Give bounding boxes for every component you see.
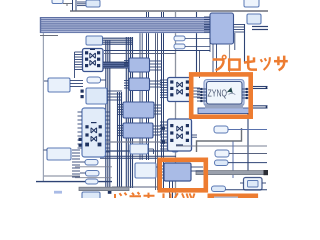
wires M3 out (154, 105, 162, 114)
wire right pair (252, 27, 268, 30)
block B6 (135, 163, 162, 178)
wire horizontal y157 (100, 156, 176, 158)
ZYNQ left pins (197, 88, 207, 102)
block TR1 (244, 0, 259, 7)
wire thin gray pair (75, 167, 112, 178)
pill P6 (212, 186, 268, 192)
axi interconnect U2 (82, 108, 106, 157)
wire pill stub (101, 79, 107, 81)
wire horizontal y186 (112, 186, 158, 188)
wire gray rail top (70, 10, 268, 12)
label processor (katakana) (213, 55, 288, 70)
wire vertical pair F (162, 12, 164, 190)
pill P2 (80, 171, 99, 177)
block bottom-left (47, 148, 71, 160)
ZYNQ processing system U5 (204, 80, 244, 109)
U3 right stubs (192, 88, 201, 97)
wire horizontal y176 (44, 175, 80, 177)
block small top-left (52, 0, 63, 4)
U4 left pin stubs (160, 122, 168, 149)
wire gray below M0 (229, 44, 231, 74)
bus ribbon (many parallel nets) (40, 17, 210, 33)
highlight box video (160, 160, 206, 191)
block proc sys reset (81, 88, 108, 104)
wire gray y146 (176, 145, 267, 147)
bus vertical bundle A (106, 40, 110, 191)
wire vertical right (244, 24, 246, 62)
M0 left pin stubs (204, 17, 210, 32)
wire vertical H (199, 50, 201, 78)
bus vertical bundle C (126, 37, 132, 188)
pill P5 (215, 160, 268, 166)
block bottom cut (82, 192, 100, 200)
pill clk wiz (87, 77, 101, 83)
svg-text:ZYNQ: ZYNQ (208, 89, 228, 100)
module M5 (video) (164, 163, 203, 181)
wire const join (209, 38, 211, 52)
wire vertical sd (247, 113, 249, 172)
bus wide gray 2 (196, 170, 268, 175)
wire horizontal y142 (100, 141, 176, 143)
M0 right wires (234, 25, 245, 33)
mark bottom small (54, 191, 62, 194)
bus behind ZYNQ (198, 108, 250, 114)
block reset left (48, 78, 70, 92)
wire B7 stubs (240, 182, 266, 184)
wires reset to U1 (44, 81, 83, 87)
wire horizontal y53 (104, 53, 176, 55)
wire y152 (229, 153, 267, 155)
wire pin stubs (77, 2, 86, 6)
bus from feeder (103, 38, 134, 44)
wire vertical pair D (147, 12, 149, 160)
wires M5 bottom (170, 181, 173, 198)
module M4 (118, 123, 153, 138)
axi smartconnect U3 (168, 78, 192, 102)
pill P3 (86, 179, 99, 184)
wire vertical G (196, 12, 198, 72)
wire vertical D2 (140, 33, 142, 160)
wire stub (63, 4, 73, 7)
U2 right pin stubs (106, 112, 111, 152)
module M5 (video) pins (159, 166, 166, 178)
junction square (108, 190, 112, 194)
module M2 (124, 78, 150, 91)
block B7 (selected) (244, 178, 263, 191)
module M3 (118, 102, 154, 118)
label video hw (cut off) (115, 192, 195, 198)
wire DDR pair (253, 106, 268, 108)
wires M4 out (153, 126, 162, 135)
bus U1 to interconnect spine (103, 62, 129, 68)
ZYNQ right pins (242, 88, 250, 99)
highlight box processor (191, 74, 251, 116)
axi smartconnect U4 (162, 119, 192, 151)
wire vertical pair E (156, 30, 158, 190)
M0 bottom stubs (213, 33, 235, 50)
wire horizontal y50 (104, 50, 210, 52)
pill Pa (214, 126, 267, 133)
wire FIXED_IO pair (252, 87, 268, 90)
pill Pb (215, 150, 229, 157)
wire bottom-left stub (43, 149, 47, 151)
wire stub under band (40, 35, 58, 37)
pill const1 (174, 36, 210, 41)
pill const2 (174, 44, 210, 49)
wire below M0 long (213, 50, 217, 74)
pill P4 (172, 147, 179, 152)
wire gray vertical rail left (42, 33, 44, 182)
wire net y181 (36, 181, 112, 183)
wire gray partial rect (197, 128, 242, 152)
module M0 (DDR ctrl) (210, 13, 234, 44)
block feeder (86, 36, 103, 45)
block TR2 (247, 14, 261, 24)
bus vertical bundle B (118, 92, 122, 190)
module M1 (124, 58, 150, 72)
U1 left pin stubs (75, 52, 83, 78)
U3 left pin stubs (160, 80, 168, 98)
bus wide gray (79, 187, 129, 190)
wire vertical x233 (232, 142, 234, 179)
wires reset out (107, 91, 122, 100)
U2 left pin stubs (78, 112, 83, 148)
block small top (86, 0, 100, 7)
wires M1 out (150, 61, 163, 70)
wire gray vertical rail (175, 11, 177, 198)
highlight box bottom (210, 196, 256, 218)
wires M2 out (150, 81, 163, 87)
wire vertical pair (73, 0, 77, 11)
pill P1 (80, 160, 98, 166)
pin stub column (72, 150, 80, 177)
axi interconnect U1 (83, 49, 104, 72)
block B5 (130, 144, 154, 154)
wires U4 right (192, 135, 198, 137)
wire horizontal y151 (104, 150, 176, 152)
